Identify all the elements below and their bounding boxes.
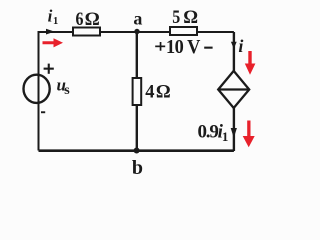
svg-text:10 V: 10 V <box>166 37 201 59</box>
svg-text:a: a <box>133 9 142 29</box>
svg-text:i: i <box>238 36 243 56</box>
svg-text:i: i <box>48 7 53 26</box>
svg-text:s: s <box>64 83 70 98</box>
svg-text:Ω: Ω <box>85 9 100 30</box>
svg-text:Ω: Ω <box>156 83 171 103</box>
svg-text:Ω: Ω <box>183 8 198 28</box>
svg-text:4: 4 <box>145 83 154 103</box>
svg-text:1: 1 <box>222 129 229 144</box>
svg-text:1: 1 <box>53 16 58 27</box>
svg-text:5: 5 <box>172 5 180 27</box>
svg-text:0.9i: 0.9i <box>198 121 224 142</box>
svg-text:6: 6 <box>76 8 84 30</box>
svg-text:b: b <box>132 157 143 177</box>
